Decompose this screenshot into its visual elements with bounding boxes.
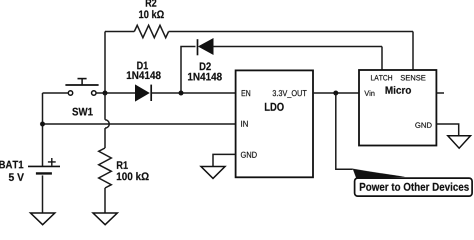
wire: R2 right lead to SENSE <box>169 31 413 33</box>
label Power to Other Devices <box>360 183 469 191</box>
label BAT1 <box>0 161 23 169</box>
wire: R1 to ground <box>104 188 106 213</box>
wire: IN rail from battery rail to LDO IN <box>43 123 236 125</box>
wire: battery to ground <box>42 175 44 213</box>
wire: LATCH pin stub <box>381 47 383 71</box>
resistor R2 <box>134 25 168 37</box>
label D1 <box>137 62 148 70</box>
wire: switch right terminal to EN rail <box>96 92 136 94</box>
value 1N4148 (D2) <box>188 73 222 81</box>
pin 3.3V_OUT <box>273 90 307 98</box>
pin LATCH <box>371 75 392 80</box>
junction: battery to IN rail <box>40 122 45 127</box>
ground (R1) <box>93 213 117 225</box>
wire: D2 anode to LATCH <box>213 46 382 48</box>
pin SENSE <box>401 75 426 80</box>
junction: switch right node <box>103 91 108 96</box>
value 100 kOhm <box>117 172 149 180</box>
value 10 kOhm <box>139 10 164 18</box>
op-amp U1: LDO regulator box <box>236 70 313 177</box>
junction: output node <box>333 91 338 96</box>
callout tail: power tap pointer <box>353 169 405 179</box>
wire: Micro right stub <box>436 92 444 94</box>
diode D1 <box>136 85 152 101</box>
label R1 <box>117 161 128 169</box>
wire: switch left terminal to left rail <box>43 92 69 94</box>
wire: LDO GND to ground <box>213 154 236 166</box>
battery BAT1 <box>28 158 60 173</box>
pushbutton SW1 <box>65 79 98 96</box>
label SW1 <box>72 108 92 116</box>
pin EN <box>242 90 250 96</box>
wire: R2 left lead from node at (105,31.5) <box>105 31 134 33</box>
label D2 <box>200 62 211 70</box>
pin GND (Micro) <box>415 122 431 127</box>
resistor R1 <box>99 148 112 188</box>
label R2 <box>146 0 157 7</box>
diode D2 <box>198 39 214 55</box>
wire: SENSE pin stub <box>412 32 414 71</box>
ground (battery) <box>31 213 55 225</box>
callout box: Power to Other Devices <box>355 178 473 196</box>
wire: LDO output to Micro Vin <box>313 92 359 94</box>
wire: D2 branch riser from EN rail <box>181 47 196 94</box>
pin Vin <box>364 90 374 96</box>
ground (LDO) <box>201 167 225 179</box>
ground (Micro) <box>448 136 471 148</box>
label LDO <box>265 103 284 111</box>
wire: R1 riser with hop over IN rail <box>105 93 109 148</box>
value 1N4148 (D1) <box>127 71 161 79</box>
wire: D1 cathode to LDO EN <box>151 92 235 94</box>
label Micro <box>386 86 411 94</box>
wire: output node down to power tap <box>336 93 353 169</box>
pin GND (LDO) <box>241 152 257 158</box>
micro U2 box <box>359 70 436 146</box>
wire: left rail down to battery <box>42 93 44 166</box>
wire: Micro GND to ground <box>436 124 458 136</box>
pin IN <box>241 121 248 127</box>
junction: D2 branch node <box>179 91 184 96</box>
wire: vertical from R2 left down to switch node <box>104 32 106 94</box>
value 5 V <box>9 173 24 181</box>
